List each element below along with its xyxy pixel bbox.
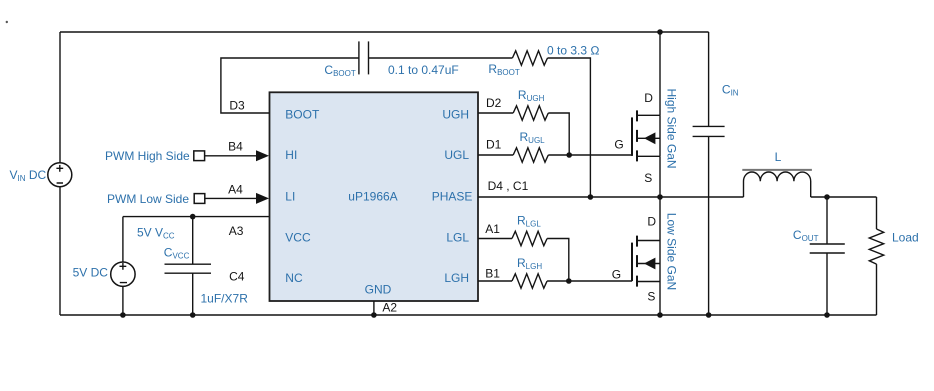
svg-text:G: G: [614, 138, 623, 152]
node drain/VIN junction: [657, 29, 663, 35]
wire inductor to output node: [811, 196, 877, 198]
arrow HI pin: [256, 150, 269, 161]
svg-text:B4: B4: [228, 140, 243, 154]
svg-text:0 to 3.3 Ω: 0 to 3.3 Ω: [547, 44, 600, 58]
wire CVCC bottom branch: [192, 273, 194, 315]
svg-text:A3: A3: [229, 224, 244, 238]
resistor RUGL: [513, 148, 548, 162]
wire CVCC top branch: [192, 217, 194, 265]
resistor RBOOT: [512, 51, 547, 65]
svg-text:0.1 to 0.47uF: 0.1 to 0.47uF: [388, 63, 459, 77]
wire RLGL to low gate junction: [547, 239, 569, 282]
wire left rail upper: [59, 32, 61, 163]
wire LGL pin: [478, 238, 512, 240]
wire high drain to VIN rail: [659, 32, 661, 115]
op-amp U1 uP1966A body: [270, 92, 479, 301]
svg-text:UGH: UGH: [442, 107, 469, 121]
wire RUGH to gate junction: [548, 113, 569, 155]
svg-text:L: L: [775, 150, 782, 164]
svg-text:A4: A4: [228, 183, 243, 197]
wire bottom ground rail: [60, 314, 877, 316]
resistor Load: [869, 229, 883, 264]
resistor RUGH: [513, 106, 548, 120]
wire load top: [876, 197, 878, 229]
svg-text:VCC: VCC: [285, 230, 311, 244]
arrow LI pin: [256, 193, 269, 204]
wire PHASE line: [478, 196, 744, 198]
svg-text:PWM High Side: PWM High Side: [105, 149, 190, 163]
svg-text:BOOT: BOOT: [285, 107, 320, 121]
source V2 5V DC: [111, 262, 135, 286]
wire LGH pin: [478, 280, 512, 282]
wire UGL pin: [478, 154, 513, 156]
svg-text:HI: HI: [285, 148, 297, 162]
wire load bottom: [876, 264, 878, 315]
svg-text:D: D: [644, 91, 653, 105]
node low source ground junction: [657, 312, 663, 318]
svg-text:D: D: [647, 215, 656, 229]
wire GND pin to ground rail: [373, 301, 375, 315]
resistor RLGL: [512, 231, 547, 245]
svg-text:D1: D1: [486, 138, 502, 152]
node 5V source ground junction: [120, 312, 126, 318]
svg-text:UGL: UGL: [444, 148, 469, 162]
svg-text:D2: D2: [486, 96, 502, 110]
wire 5V rail to VCC pin: [123, 216, 270, 218]
node COUT ground junction: [824, 312, 830, 318]
svg-text:B1: B1: [485, 267, 500, 281]
wire CBOOT to RBOOT: [369, 57, 513, 59]
node CIN ground junction: [706, 312, 712, 318]
wire top rail from VIN to CIN: [60, 31, 709, 33]
wire low drain to switch node: [659, 197, 661, 241]
node high gate junction: [566, 152, 572, 158]
wire 5V source to ground rail: [122, 286, 124, 315]
svg-text:VIN DC: VIN DC: [10, 168, 47, 183]
svg-text:D3: D3: [229, 99, 245, 113]
transistor Q2 low side GaN: [632, 236, 660, 287]
svg-text:NC: NC: [285, 271, 303, 285]
wire CIN top branch: [708, 32, 710, 126]
node RBOOT/PHASE junction: [588, 194, 594, 200]
svg-text:1uF/X7R: 1uF/X7R: [201, 292, 249, 306]
svg-text:LGH: LGH: [444, 271, 469, 285]
svg-text:uP1966A: uP1966A: [348, 189, 397, 203]
node GND junction: [371, 312, 377, 318]
wire CIN bottom branch: [708, 136, 710, 315]
node 5V/CVCC junction: [190, 214, 196, 220]
wire left rail lower: [59, 187, 61, 316]
wire high gate: [548, 154, 632, 156]
capacitor CVCC: [165, 264, 212, 273]
wire high source to switch node: [659, 156, 661, 197]
svg-text:S: S: [647, 290, 655, 304]
wire 5V source to 5V rail: [122, 217, 124, 263]
terminal square HI input: [194, 151, 205, 161]
svg-text:Load: Load: [892, 231, 919, 245]
svg-text:GND: GND: [365, 282, 392, 296]
svg-text:S: S: [644, 171, 652, 185]
wire COUT bottom branch: [826, 253, 828, 315]
svg-text:Low Side GaN: Low Side GaN: [665, 213, 679, 290]
terminal square LI input: [194, 194, 205, 204]
capacitor COUT: [810, 244, 845, 253]
wire low gate: [547, 280, 632, 282]
svg-text:D4 , C1: D4 , C1: [488, 179, 529, 193]
svg-text:PWM Low Side: PWM Low Side: [107, 192, 189, 206]
wire low source to ground rail: [659, 282, 661, 316]
node switch node junction: [657, 194, 663, 200]
capacitor CIN: [693, 126, 725, 136]
wire LI input: [205, 197, 258, 199]
svg-text:PHASE: PHASE: [432, 189, 473, 203]
wire BOOT pin to D3 loop: [221, 58, 359, 113]
svg-text:High Side GaN: High Side GaN: [665, 89, 679, 169]
node output junction: [824, 194, 830, 200]
svg-text:G: G: [612, 268, 621, 282]
svg-text:C4: C4: [229, 270, 245, 284]
wire RBOOT to PHASE node: [548, 58, 591, 197]
svg-text:A2: A2: [382, 301, 397, 315]
node low gate junction: [566, 278, 572, 284]
wire COUT top branch: [826, 197, 828, 244]
inductor L1: [742, 170, 812, 197]
svg-text:LI: LI: [285, 189, 295, 203]
transistor Q1 high side GaN: [632, 110, 660, 161]
svg-text:A1: A1: [485, 222, 500, 236]
svg-text:LGL: LGL: [446, 230, 469, 244]
resistor RLGH: [512, 274, 547, 288]
wire UGH pin: [478, 112, 513, 114]
wire HI input: [205, 155, 258, 157]
node CVCC ground junction: [190, 312, 196, 318]
source V1 VIN DC: [48, 163, 72, 187]
capacitor CBOOT: [359, 41, 369, 74]
svg-text:5V DC: 5V DC: [73, 266, 109, 280]
stray mark top-left: [6, 21, 8, 23]
